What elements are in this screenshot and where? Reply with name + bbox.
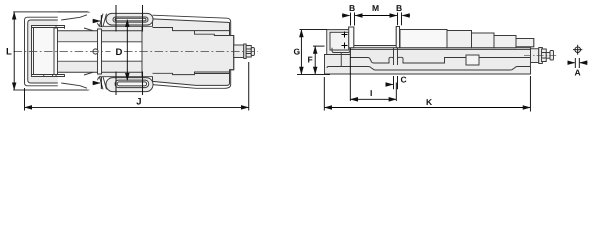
- slide cover step line bottom: [153, 72, 230, 75]
- re-stroke offset slope bottom: [61, 83, 87, 88]
- svg-text:F: F: [308, 55, 313, 65]
- bottom lug slot line left: [115, 72, 117, 96]
- outer slope line top right: [153, 15, 231, 35]
- jaw block inner bottom line: [32, 74, 65, 76]
- outer envelope bottom line: [13, 87, 91, 90]
- white strip above guide rails: [58, 13, 97, 31]
- re-stroke outer bottom over strip: [58, 89, 88, 91]
- screw shaft: [546, 53, 550, 59]
- svg-text:D: D: [116, 47, 123, 58]
- right jaw plate white band: [98, 29, 102, 74]
- re-stroke offset slope top: [61, 15, 87, 20]
- top swivel lug outer: [106, 13, 153, 25]
- handle cross-section symbol: [573, 45, 582, 55]
- groove bump right of slot: [398, 57, 467, 63]
- bottom swivel lug inner slot: [115, 80, 149, 88]
- svg-text:C: C: [401, 75, 407, 85]
- screw bearing boss: [531, 49, 539, 63]
- carriage window: [466, 55, 479, 65]
- top lug slot line right: [142, 5, 144, 32]
- dimension I: [350, 48, 396, 101]
- dimension F: [313, 46, 325, 74]
- screw cross upper: [342, 32, 348, 38]
- fixed jaw inner pocket: [330, 32, 349, 50]
- bottom lug slot line right: [142, 72, 144, 96]
- jaw block inner top line: [32, 26, 65, 29]
- jaw block inner vertical: [33, 28, 35, 75]
- svg-text:M: M: [372, 3, 379, 13]
- base body: [325, 27, 534, 75]
- slide step 4: [494, 36, 516, 48]
- svg-text:G: G: [294, 47, 301, 57]
- outer envelope top line: [13, 12, 91, 15]
- groove line right of window: [479, 57, 531, 59]
- slide end cap: [516, 39, 534, 47]
- crossing slot verticals on lugs: [116, 5, 143, 95]
- dimension L: [13, 12, 15, 89]
- body rounded outline: [25, 17, 81, 86]
- notch diagonals near bottom lug: [100, 77, 107, 90]
- dimension M: [355, 15, 397, 17]
- dimension D line: [126, 20, 128, 80]
- fixed jaw plate: [349, 27, 354, 48]
- slide cover step line top: [153, 28, 230, 36]
- svg-text:B: B: [349, 3, 355, 13]
- svg-text:I: I: [370, 88, 372, 98]
- dimension B left: [342, 13, 355, 26]
- dimension A: [568, 58, 588, 68]
- movable jaw face line: [141, 26, 143, 76]
- screw cross lower: [342, 43, 348, 49]
- base web profile line: [327, 67, 531, 71]
- dimension K: [324, 76, 530, 112]
- svg-text:A: A: [575, 68, 581, 78]
- guide rail line 4: [58, 71, 98, 73]
- centerline of left view: [14, 51, 111, 53]
- svg-text:K: K: [426, 97, 433, 107]
- fixed jaw pocket bottom: [330, 49, 349, 51]
- bottom swivel lug outer: [106, 78, 153, 92]
- guide rail line 3: [58, 60, 98, 62]
- slide step 2: [447, 31, 472, 48]
- movable jaw block: [400, 30, 447, 48]
- base step line left: [325, 54, 351, 56]
- screw hex nut: [246, 46, 251, 58]
- bottom lug slot inner line: [117, 82, 146, 86]
- screw boss: [234, 45, 244, 58]
- screw hex nut: [542, 49, 547, 62]
- svg-text:L: L: [6, 47, 12, 58]
- wedge diagonal top: [70, 14, 86, 17]
- slide step 3: [472, 33, 495, 48]
- jaw plate screws (cross marks): [342, 32, 348, 49]
- dimension B right: [398, 13, 411, 26]
- jaw block (white insert): [32, 26, 57, 77]
- guide rail line 2: [58, 41, 98, 43]
- bed rail lines across opening: [102, 31, 143, 73]
- white strip below guide rails: [58, 72, 97, 90]
- top lug slot line left: [115, 5, 117, 32]
- screw center circle: [93, 49, 98, 54]
- top lug slot inner line: [115, 18, 146, 21]
- dimension C: [386, 76, 398, 89]
- dimension G: [297, 30, 330, 75]
- screw tip: [251, 48, 254, 56]
- rail end diagonal top: [84, 28, 93, 31]
- handle knob: [550, 51, 554, 61]
- way edge line: [350, 48, 531, 50]
- re-stroke outer top over strip: [58, 11, 88, 13]
- bed way line lower: [350, 47, 531, 49]
- jaw block bottom step: [44, 75, 53, 77]
- small arrow bottom lug: [93, 77, 102, 89]
- end plate verticals: [230, 23, 234, 83]
- relief pocket under fixed jaw: [332, 48, 350, 53]
- centerline of screw right view: [524, 54, 557, 56]
- left jaw plate white band: [54, 28, 58, 75]
- svg-text:J: J: [136, 96, 141, 107]
- rail end diagonal bottom: [84, 72, 93, 75]
- dimension J: [25, 62, 249, 111]
- screw washer: [244, 44, 246, 59]
- base groove profile: [350, 57, 394, 63]
- lower swoosh outline: [153, 70, 231, 89]
- notch diagonals near top lug: [100, 14, 107, 27]
- center channel white strip: [58, 42, 97, 60]
- top swivel lug inner slot: [113, 17, 148, 22]
- bed way line upper: [354, 45, 397, 47]
- wedge diagonal bottom: [70, 86, 86, 89]
- pocket drain vertical: [340, 53, 342, 67]
- guide rail line 1: [58, 30, 98, 32]
- svg-text:B: B: [396, 3, 402, 13]
- screw washer: [539, 48, 543, 64]
- body interior (gray): [28, 15, 234, 88]
- movable jaw plate: [396, 27, 399, 48]
- small arrow top lug: [93, 15, 102, 27]
- center slot edges: [394, 48, 398, 65]
- center channel white strip in opening: [102, 42, 142, 60]
